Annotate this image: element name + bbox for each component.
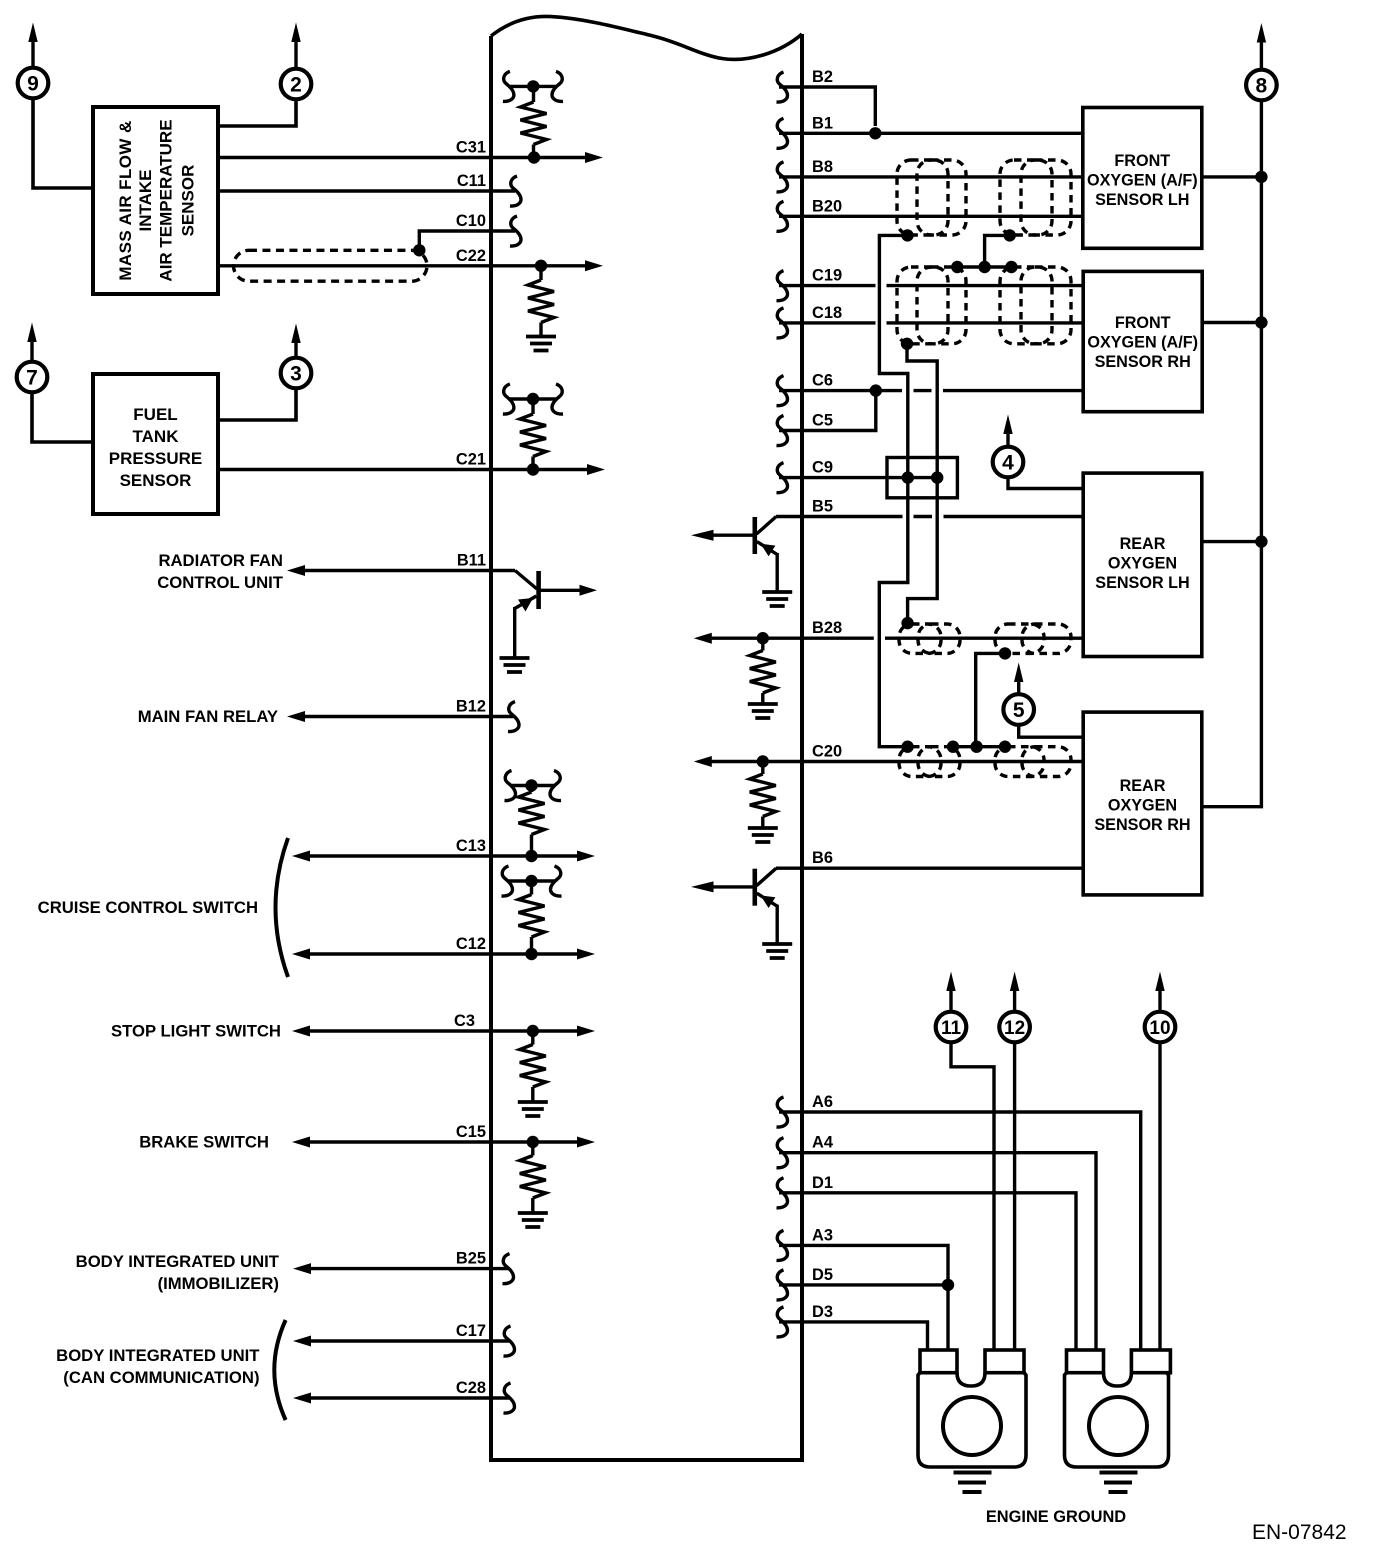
ground below R2 <box>526 337 556 351</box>
svg-text:B12: B12 <box>456 698 486 716</box>
svg-text:(IMMOBILIZER): (IMMOBILIZER) <box>158 1274 279 1293</box>
svg-text:C11: C11 <box>457 172 486 190</box>
svg-text:B5: B5 <box>812 498 833 516</box>
connector 2 <box>281 23 312 100</box>
svg-text:C3: C3 <box>454 1012 475 1030</box>
svg-text:REAR: REAR <box>1120 535 1166 553</box>
shield drain wire chain C <box>901 647 1011 753</box>
svg-text:C15: C15 <box>456 1123 486 1141</box>
svg-text:C10: C10 <box>456 212 486 230</box>
svg-text:AIR TEMPERATURE: AIR TEMPERATURE <box>157 119 176 281</box>
right bus wire from connector 8 <box>1202 100 1268 807</box>
pin C18 wire <box>777 304 1084 338</box>
pin B28 wire <box>694 619 1083 644</box>
svg-text:D5: D5 <box>812 1266 833 1284</box>
resistor R8 <box>750 638 776 703</box>
ground symbol below lug 2 <box>1100 1473 1138 1493</box>
pin B6 wire <box>776 849 1083 868</box>
svg-text:2: 2 <box>290 74 302 97</box>
wire fuel tank sensor to connector 3 <box>218 387 296 420</box>
ground symbol below lug 1 <box>954 1473 992 1493</box>
twisted pair shield around C20 group 2 <box>995 747 1071 777</box>
pin A3 wire <box>777 1226 949 1285</box>
pin C11 wire <box>218 172 521 206</box>
svg-text:C19: C19 <box>812 267 842 285</box>
svg-text:C9: C9 <box>812 459 833 477</box>
svg-text:C28: C28 <box>456 1379 486 1397</box>
svg-text:(CAN COMMUNICATION): (CAN COMMUNICATION) <box>63 1368 259 1387</box>
svg-text:SENSOR RH: SENSOR RH <box>1094 816 1190 834</box>
pin D3 wire <box>777 1303 928 1350</box>
connector 11 <box>936 972 967 1043</box>
pin D5 wire <box>777 1266 955 1350</box>
svg-text:FRONT: FRONT <box>1114 152 1170 170</box>
svg-text:C21: C21 <box>456 451 486 469</box>
resistor R1 <box>521 86 547 157</box>
svg-text:BODY INTEGRATED UNIT: BODY INTEGRATED UNIT <box>56 1346 260 1365</box>
svg-text:C22: C22 <box>456 247 486 265</box>
body integrated unit immobilizer label <box>76 1252 280 1293</box>
svg-text:8: 8 <box>1256 75 1268 98</box>
svg-text:BRAKE SWITCH: BRAKE SWITCH <box>139 1133 269 1152</box>
svg-text:OXYGEN: OXYGEN <box>1108 797 1177 815</box>
internal rail with hooks above R4 <box>505 771 562 801</box>
wire connector 10 to ground lug 2 <box>1158 1043 1161 1351</box>
connector 10 <box>1145 972 1176 1043</box>
resistor R9 <box>750 762 776 828</box>
svg-text:12: 12 <box>1004 1018 1025 1039</box>
ground below Q2 <box>762 592 792 606</box>
pin B8 wire <box>777 158 1083 192</box>
svg-text:TANK: TANK <box>133 427 180 446</box>
connector 7 <box>17 323 48 393</box>
svg-text:STOP LIGHT SWITCH: STOP LIGHT SWITCH <box>111 1022 281 1041</box>
svg-text:INTAKE: INTAKE <box>136 169 155 231</box>
svg-text:C20: C20 <box>812 743 842 761</box>
twisted pair shield around B28 group 2 <box>995 624 1071 653</box>
twisted pair shield around B8/B20 group 2 <box>1000 160 1071 235</box>
svg-text:D1: D1 <box>812 1174 833 1192</box>
pin A4 wire <box>777 1134 1097 1350</box>
svg-text:B2: B2 <box>812 68 833 86</box>
pin C10 wire <box>413 212 521 257</box>
rear oxygen sensor RH box <box>1083 712 1202 895</box>
ground below R9 <box>748 828 778 842</box>
resistor R3 <box>520 399 546 470</box>
svg-text:MASS AIR FLOW &: MASS AIR FLOW & <box>116 120 135 280</box>
pin C6 wire <box>777 372 1084 406</box>
svg-text:MAIN FAN RELAY: MAIN FAN RELAY <box>138 707 278 726</box>
shield drain wire chain A upper-left <box>879 229 913 747</box>
svg-text:7: 7 <box>26 367 38 390</box>
radiator fan control unit label <box>157 551 284 592</box>
svg-text:FRONT: FRONT <box>1115 314 1171 332</box>
CAN bracket <box>274 1320 285 1420</box>
svg-text:3: 3 <box>290 363 302 386</box>
svg-text:C31: C31 <box>456 139 486 157</box>
shield drain wire chain B <box>901 338 937 630</box>
rear oxygen sensor LH box <box>1083 473 1202 656</box>
svg-text:BODY INTEGRATED UNIT: BODY INTEGRATED UNIT <box>76 1252 280 1271</box>
pin C31 wire <box>218 139 603 164</box>
pin C5 wire <box>777 391 876 446</box>
twisted pair shield around B8/B20 group 1 <box>897 160 966 235</box>
svg-text:A4: A4 <box>812 1134 834 1152</box>
svg-text:C17: C17 <box>456 1322 486 1340</box>
svg-text:RADIATOR FAN: RADIATOR FAN <box>158 551 283 570</box>
ground below R8 <box>748 704 778 718</box>
front oxygen sensor LH box <box>1083 108 1202 249</box>
svg-text:4: 4 <box>1002 452 1014 475</box>
svg-text:OXYGEN: OXYGEN <box>1108 555 1177 573</box>
svg-text:A3: A3 <box>812 1226 833 1244</box>
resistor R6 <box>520 1031 546 1101</box>
svg-text:SENSOR: SENSOR <box>120 471 192 490</box>
pin B25 wire <box>293 1250 514 1284</box>
svg-text:REAR: REAR <box>1120 777 1166 795</box>
transistor Q2 <box>691 517 777 592</box>
ground below Q3 <box>762 944 792 958</box>
resistor R2 <box>528 266 554 335</box>
pin A6 wire <box>777 1093 1141 1350</box>
svg-text:B25: B25 <box>456 1250 486 1268</box>
connector 8 <box>1246 23 1277 100</box>
resistor R4 <box>519 786 545 857</box>
connector 4 <box>993 415 1024 478</box>
body integrated unit CAN label <box>56 1346 260 1387</box>
svg-text:C12: C12 <box>456 935 486 953</box>
pin C15 wire <box>292 1123 595 1148</box>
svg-text:SENSOR LH: SENSOR LH <box>1095 574 1189 592</box>
ground lug 2 <box>1065 1350 1171 1467</box>
pin C19 wire <box>777 267 1084 301</box>
transistor Q1 <box>515 571 597 658</box>
svg-text:SENSOR: SENSOR <box>179 165 198 237</box>
front oxygen sensor RH box <box>1083 271 1202 411</box>
svg-text:CONTROL UNIT: CONTROL UNIT <box>157 573 284 592</box>
svg-text:9: 9 <box>27 73 39 96</box>
transistor Q3 <box>691 868 777 943</box>
mass air flow sensor box <box>93 107 218 294</box>
pin B11 wire <box>287 552 515 577</box>
ground below R7 <box>518 1213 548 1227</box>
pin C21 wire <box>218 451 605 476</box>
pin B2 wire <box>777 68 876 126</box>
pin C12 wire <box>292 935 595 960</box>
wire connector 7 to fuel tank sensor <box>32 391 93 442</box>
wire MAF to connector 2 <box>218 98 296 126</box>
pin B20 wire <box>777 197 1083 231</box>
connector 9 <box>18 23 49 99</box>
svg-text:B8: B8 <box>812 158 833 176</box>
wire connector 12 to ground lug 1 <box>1013 1043 1016 1351</box>
cruise control bracket <box>276 838 289 977</box>
pin C22 wire <box>218 247 603 272</box>
svg-text:10: 10 <box>1149 1018 1170 1039</box>
svg-text:B11: B11 <box>457 552 486 570</box>
pin B5 wire <box>776 498 1083 517</box>
svg-text:PRESSURE: PRESSURE <box>109 449 203 468</box>
internal rail with hooks above R5 <box>502 866 562 896</box>
pin C13 wire <box>292 837 595 862</box>
connector 12 <box>999 972 1030 1043</box>
internal rail with hooks above R1 <box>503 71 563 101</box>
pin D1 wire <box>777 1174 1077 1350</box>
wire connector 9 to MAF <box>33 97 93 188</box>
svg-text:C6: C6 <box>812 372 833 390</box>
resistor R5 <box>519 881 545 954</box>
pin B12 wire <box>287 698 519 732</box>
twisted pair shield around C19/C18 group 1 <box>897 267 966 344</box>
svg-text:B28: B28 <box>812 619 842 637</box>
wire connector 11 to ground lug 1 <box>951 1043 994 1351</box>
svg-text:B6: B6 <box>812 849 833 867</box>
ECM module box <box>491 16 802 1460</box>
svg-text:5: 5 <box>1013 699 1025 722</box>
pin C3 wire <box>292 1012 595 1037</box>
svg-text:OXYGEN (A/F): OXYGEN (A/F) <box>1087 334 1198 352</box>
fuel tank pressure sensor box <box>93 374 218 514</box>
connector 5 <box>1003 663 1034 725</box>
svg-text:ENGINE GROUND: ENGINE GROUND <box>986 1508 1126 1526</box>
ground lug 1 <box>918 1350 1026 1467</box>
svg-text:SENSOR LH: SENSOR LH <box>1095 191 1189 209</box>
svg-text:EN-07842: EN-07842 <box>1252 1521 1347 1544</box>
pin C17 wire <box>293 1322 515 1356</box>
svg-text:CRUISE CONTROL SWITCH: CRUISE CONTROL SWITCH <box>38 898 258 917</box>
svg-text:B1: B1 <box>812 114 833 132</box>
svg-text:C18: C18 <box>812 304 842 322</box>
svg-text:B20: B20 <box>812 197 842 215</box>
wire connector 4 to rear oxygen sensor LH <box>1008 477 1083 489</box>
svg-text:FUEL: FUEL <box>133 405 177 424</box>
shield stadium around C22 wire <box>234 250 428 281</box>
resistor R7 <box>520 1142 546 1212</box>
twisted pair shield around C19/C18 group 2 <box>1000 267 1071 344</box>
pin C20 wire <box>694 743 1083 768</box>
shield drain wire chain D upper-right <box>951 229 1018 273</box>
pin C9 wire <box>777 459 944 493</box>
svg-text:OXYGEN (A/F): OXYGEN (A/F) <box>1087 172 1198 190</box>
internal rail with hooks above R3 <box>503 384 563 414</box>
svg-text:A6: A6 <box>812 1093 833 1111</box>
svg-text:11: 11 <box>941 1018 962 1039</box>
wire connector 5 to rear oxygen sensor RH <box>1019 725 1083 738</box>
svg-text:C5: C5 <box>812 412 833 430</box>
svg-text:D3: D3 <box>812 1303 833 1321</box>
pin C28 wire <box>293 1379 515 1413</box>
pin B1 wire <box>777 114 1083 148</box>
twisted pair shield around C20 group 1 <box>899 747 960 777</box>
connector 3 <box>281 324 312 389</box>
ground below R6 <box>518 1102 548 1116</box>
svg-text:SENSOR RH: SENSOR RH <box>1095 353 1191 371</box>
junction box around C9 shield joints <box>887 458 957 498</box>
twisted pair shield around B28 group 1 <box>899 624 960 653</box>
svg-text:C13: C13 <box>456 837 486 855</box>
ground below Q1 <box>500 658 530 672</box>
